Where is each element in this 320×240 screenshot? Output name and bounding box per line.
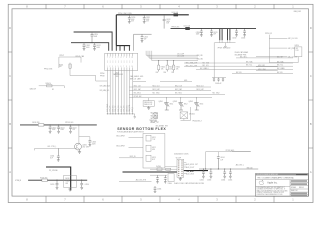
svg-text:LED_DRV: LED_DRV (82, 146, 89, 148)
capacitor C5 (143, 15, 150, 24)
capacitor C11 bulk pair B (228, 29, 230, 41)
junction dots bus PP3V3 (201, 28, 245, 29)
resistor R9 (156, 166, 162, 171)
svg-text:MIC_SEL0: MIC_SEL0 (153, 93, 160, 95)
connector J1 pin numbers (107, 57, 133, 68)
capacitor C30 (156, 175, 159, 183)
svg-text:10K: 10K (176, 68, 179, 70)
wire net row 4 PP1V8_MIC (129, 96, 212, 98)
IC U1 right pins (184, 163, 187, 174)
svg-text:C: C (9, 74, 11, 78)
wire mic row 1 (116, 136, 143, 138)
title block address text (257, 186, 288, 196)
svg-text:MIC_EN: MIC_EN (236, 72, 241, 74)
wire codec aux left (119, 179, 152, 182)
frame zone labels bottom (26, 198, 294, 202)
svg-text:100N: 100N (60, 129, 63, 131)
resistor R1 (59, 64, 71, 68)
svg-text:MIC_SEL0: MIC_SEL0 (134, 93, 141, 95)
wire net row SCL right (184, 65, 293, 68)
svg-text:MIC_INT_L: MIC_INT_L (240, 56, 248, 58)
title block legal row (256, 177, 309, 180)
svg-text:PP1V8_MIC: PP1V8_MIC (134, 96, 142, 98)
wire GND junction row below J1 (107, 113, 136, 118)
capacitor C24 (217, 157, 225, 169)
svg-text:D4530: D4530 (65, 178, 69, 180)
svg-text:WITHOUT PERMISSION. 1 INFINITE: WITHOUT PERMISSION. 1 INFINITE LOOP (257, 192, 285, 194)
net label rows conn-left (100, 85, 110, 93)
svg-text:MIC3: MIC3 (152, 157, 156, 159)
wire lower stub row 2 (256, 68, 278, 71)
svg-text:6.3V: 6.3V (131, 21, 134, 23)
wire net row row5 right (232, 72, 293, 74)
svg-text:100N: 100N (86, 47, 89, 49)
svg-text:C4533: C4533 (241, 38, 245, 40)
capacitor C12 (232, 29, 238, 40)
transistor Q3 mic switch 2 (173, 98, 188, 110)
svg-text:A: A (9, 170, 11, 174)
capacitor C10 bulk pair A (220, 29, 222, 41)
svg-text:1UF: 1UF (72, 129, 75, 131)
title block header bar (256, 174, 308, 177)
svg-text:C4511: C4511 (146, 17, 150, 19)
svg-text:CSI0_DP: CSI0_DP (110, 106, 112, 112)
ground below D1 (68, 188, 71, 191)
net labels below resistors (156, 72, 175, 74)
svg-text:10K: 10K (59, 66, 62, 68)
svg-text:MID: MID (152, 149, 155, 151)
ground Q1 emitter (78, 150, 81, 154)
svg-text:CSI_CLKP: CSI_CLKP (177, 54, 184, 56)
net label column right (151, 112, 159, 123)
svg-text:C4513: C4513 (144, 37, 148, 39)
svg-text:SHEET 44: SHEET 44 (291, 190, 298, 192)
wire rail PP1V8 top-left (71, 43, 109, 51)
svg-text:B: B (9, 122, 11, 126)
wire codec input row (150, 168, 177, 170)
svg-text:4.7K: 4.7K (296, 50, 299, 52)
svg-text:Q4501: Q4501 (159, 101, 164, 103)
svg-text:C4564: C4564 (221, 180, 225, 182)
capacitor C21 (50, 148, 60, 161)
microphone element M3 (146, 155, 156, 161)
svg-text:C4554: C4554 (50, 156, 54, 158)
svg-text:C4551: C4551 (60, 127, 64, 129)
net label left of J1 (100, 73, 105, 78)
note text right (235, 51, 248, 56)
resistor R6 in box (295, 45, 302, 62)
capacitor C19 (69, 125, 77, 133)
svg-text:SENSOR BOTTOM FLEX: SENSOR BOTTOM FLEX (117, 127, 166, 131)
capacitor C26 (207, 169, 212, 182)
svg-text:R4501: R4501 (59, 64, 63, 66)
wire base line (35, 146, 75, 148)
svg-text:C4532: C4532 (232, 38, 236, 40)
wire thick audio out (184, 170, 208, 172)
svg-text:MIC1_CLK: MIC1_CLK (134, 85, 141, 87)
wire J1 pin drops (108, 70, 133, 114)
svg-text:CSI_DP0: CSI_DP0 (197, 55, 203, 57)
svg-text:MIC1_CLK: MIC1_CLK (153, 85, 160, 87)
svg-text:10K: 10K (169, 68, 172, 70)
wire MIPI lane row 2 (148, 51, 198, 57)
svg-text:PP3V0: PP3V0 (100, 73, 105, 75)
svg-text:C4561: C4561 (220, 157, 224, 159)
svg-text:C4552: C4552 (72, 127, 76, 129)
svg-text:C4553: C4553 (92, 142, 96, 144)
net labels right of U1 (186, 163, 198, 169)
svg-text:10UF: 10UF (146, 19, 150, 21)
svg-text:052-01234 SENSOR BTM FLEX: 052-01234 SENSOR BTM FLEX (257, 174, 279, 176)
svg-text:CSI0_CN: CSI0_CN (118, 106, 120, 112)
svg-text:MIC_SCL_1V8: MIC_SCL_1V8 (186, 65, 197, 67)
wire net tree branch 3 (256, 56, 297, 58)
svg-text:CSI1_DN: CSI1_DN (124, 106, 126, 112)
svg-text:100N: 100N (196, 34, 199, 36)
capacitor C15 (217, 78, 219, 82)
svg-text:C4565: C4565 (228, 180, 232, 182)
svg-text:PP3V3_MIC: PP3V3_MIC (172, 27, 180, 29)
svg-text:R4520: R4520 (295, 45, 299, 47)
svg-text:THIS: THIS (257, 178, 260, 180)
svg-text:C4556: C4556 (85, 184, 89, 186)
svg-text:WLCSP: WLCSP (176, 157, 181, 159)
wire net tree vertical (268, 35, 270, 63)
border frame inner (12, 9, 309, 196)
title block right divider (289, 180, 291, 197)
capacitor C22 (50, 180, 58, 189)
microphone array box (143, 134, 165, 169)
svg-text:MK4502: MK4502 (189, 114, 195, 116)
wire mic row 2 (116, 146, 143, 148)
power symbol PP_BULK (218, 46, 231, 50)
border frame outer (8, 4, 313, 202)
svg-text:R4510: R4510 (161, 67, 165, 69)
wire thick audio bus (123, 171, 178, 173)
svg-text:MIC_SCL: MIC_SCL (246, 65, 252, 67)
connector J1 refdes label (113, 72, 123, 78)
svg-text:6.3V: 6.3V (146, 21, 149, 23)
capacitor C7 (141, 34, 149, 42)
svg-text:1UF: 1UF (213, 34, 216, 36)
svg-text:100N: 100N (92, 143, 95, 145)
svg-text:C4512: C4512 (166, 19, 170, 21)
svg-text:C4540-42: C4540-42 (215, 83, 222, 85)
capacitor C20 (89, 141, 97, 147)
ground below U1 (179, 177, 182, 180)
svg-text:MIC1: MIC1 (170, 104, 174, 106)
frame zone labels top (26, 5, 294, 9)
connector J1 middle pin marks (108, 61, 133, 63)
capacitor C23 (80, 180, 89, 189)
ferrite bead L2 (184, 25, 190, 30)
svg-text:FL4560: FL4560 (156, 166, 161, 168)
svg-text:C4531: C4531 (213, 32, 217, 34)
svg-text:GPIO_MIC: GPIO_MIC (258, 65, 265, 67)
resistor R4 vertical (158, 61, 166, 72)
junction dots MIPI rows (158, 59, 174, 62)
svg-text:B: B (310, 122, 312, 126)
svg-text:PP1V8: PP1V8 (100, 76, 105, 78)
capacitor C28 (228, 169, 232, 182)
microphone MK1 box (153, 113, 157, 118)
svg-text:GND: GND (184, 80, 187, 82)
wire mic row 3 (119, 156, 143, 158)
svg-text:R4530 1R0: R4530 1R0 (32, 122, 39, 124)
svg-text:CSI1_DP: CSI1_DP (121, 106, 123, 112)
resistor R8 series (40, 177, 47, 181)
svg-text:C4562: C4562 (200, 180, 204, 182)
capacitor C31 (164, 175, 167, 183)
capacitor C8 (196, 29, 203, 37)
svg-text:A: A (310, 170, 312, 174)
capacitor C27 (221, 169, 226, 182)
svg-text:R4531 0R5: R4531 0R5 (40, 177, 47, 179)
title block right cells (290, 180, 308, 196)
microphone element M1 (146, 135, 156, 141)
svg-text:CSI_DN0: CSI_DN0 (197, 58, 203, 60)
svg-text:MIC1: MIC1 (152, 137, 156, 139)
svg-text:NC: NC (52, 89, 54, 91)
wire bus PP3V3 top-right (171, 28, 257, 30)
net stub left end (34, 148, 36, 150)
frame zone ticks right (309, 52, 314, 148)
microphone MK2 box (180, 112, 195, 119)
frame zone ticks bottom (46, 196, 274, 202)
wire to note box (148, 98, 150, 101)
capacitor C4 (128, 15, 136, 24)
wire rail AVDD over codec (206, 152, 251, 169)
wire stub to title block (232, 152, 251, 167)
svg-text:MIC2: MIC2 (152, 147, 156, 149)
svg-text:C: C (310, 74, 312, 78)
svg-text:MIC_SEL2: MIC_SEL2 (213, 93, 220, 95)
crystal Y1 box (168, 174, 175, 185)
title block outline (256, 174, 309, 197)
connector J1 inner pin stubs (108, 53, 133, 70)
wire rail PP3V0 top-left (74, 32, 113, 51)
microphone element M2 (146, 145, 156, 151)
svg-text:C4521: C4521 (86, 45, 90, 47)
ferrite bead L1 (172, 11, 179, 16)
svg-text:Q4503: Q4503 (189, 101, 194, 103)
capacitor C13 (241, 29, 246, 40)
svg-text:TOP: TOP (152, 139, 155, 141)
resistor R7 series (32, 122, 44, 126)
svg-text:R4502 0: R4502 0 (46, 83, 52, 85)
svg-text:1UF: 1UF (220, 159, 223, 161)
capacitor C6 between rails (163, 15, 171, 29)
frame zone labels right (310, 26, 312, 174)
junction codec rail (203, 168, 231, 169)
wire net row SDA right (184, 60, 293, 64)
wire MIPI lane row 3 (150, 51, 198, 59)
svg-text:BOT: BOT (152, 159, 155, 161)
wire collector below bulk caps (215, 40, 236, 46)
svg-text:C4563: C4563 (207, 180, 211, 182)
svg-text:TP4500 MIC_T: TP4500 MIC_T (192, 121, 202, 123)
svg-text:SHIELD CLIP: SHIELD CLIP (144, 104, 152, 106)
svg-text:Y4560: Y4560 (168, 183, 172, 185)
wire MIPI lane row 4 (152, 51, 198, 61)
svg-text:PP3V3_S2: PP3V3_S2 (265, 33, 272, 35)
wire pin stubs to connector (116, 46, 129, 51)
svg-text:10K: 10K (161, 68, 164, 70)
resistor R10 (165, 168, 171, 174)
wire mic box out (165, 166, 177, 168)
LED driver D1 box (64, 175, 76, 187)
wire distribution below bus (116, 45, 130, 47)
svg-text:TP4501 MIC: TP4501 MIC (149, 120, 157, 122)
title block divider line (256, 185, 291, 187)
net name columns below J1 (106, 103, 134, 112)
wire codec out right (199, 168, 258, 170)
capacitor C18 (57, 125, 65, 133)
wire net row 1 (129, 85, 211, 87)
svg-text:C4520: C4520 (94, 34, 98, 36)
svg-text:STRB_IN: STRB_IN (15, 180, 21, 182)
capacitor C1 (91, 32, 99, 43)
capacitor C16 (215, 78, 224, 85)
junction dots bus PP_TOP (129, 14, 165, 15)
svg-text:C4510: C4510 (131, 17, 135, 19)
svg-text:1UF: 1UF (50, 157, 53, 159)
wire net row 2 (129, 88, 211, 91)
svg-text:BTB: BTB (116, 76, 119, 78)
svg-text:MIC2_INPUT: MIC2_INPUT (116, 146, 125, 148)
svg-text:I2S_BUS: I2S_BUS (187, 171, 195, 173)
wire codec gnd row (150, 174, 167, 176)
svg-text:R4511: R4511 (169, 67, 173, 69)
Apple logo (259, 180, 264, 185)
wire net tree branch 1 (269, 38, 297, 40)
wire bus PP_TOP vertical (115, 15, 117, 46)
wire net row row4 right (196, 67, 293, 70)
capacitor C3 (93, 43, 101, 51)
wire bus PP_TOP horizontal (116, 14, 189, 16)
transistor Q1 (75, 137, 89, 150)
svg-text:MIC_SCL: MIC_SCL (277, 65, 283, 67)
test point TP1 label (192, 121, 202, 123)
wire mic2 bottom (181, 107, 191, 120)
wire net row 3 (129, 93, 225, 95)
resistor R2 (46, 83, 53, 87)
svg-text:10UF: 10UF (52, 129, 56, 131)
capacitor C14 (213, 78, 215, 82)
wire net tree branch 2 (269, 48, 297, 50)
svg-text:MIC2: MIC2 (184, 104, 188, 106)
transistor Q2 mic switch 1 (159, 98, 174, 110)
svg-text:100N: 100N (166, 21, 169, 23)
wire zigzag mid-left (59, 57, 107, 81)
wire caps row below (212, 77, 226, 79)
svg-text:C4566: C4566 (157, 188, 161, 190)
svg-text:FM4500 GND: FM4500 GND (144, 102, 152, 104)
svg-text:LED_CTRL_L: LED_CTRL_L (47, 146, 56, 148)
IC U1 label (174, 153, 189, 160)
svg-text:D: D (9, 26, 11, 30)
svg-text:CSI0_CP: CSI0_CP (115, 106, 117, 112)
wire lower stub row 1 (256, 65, 278, 67)
net label lower-left (30, 88, 55, 91)
wire rail PP2V8 left (20, 124, 97, 126)
svg-text:10UF: 10UF (131, 19, 135, 21)
wire net tree branch 4 (269, 62, 296, 64)
transistor Q4 mic switch 3 (189, 98, 204, 110)
svg-text:CSI_CLKN: CSI_CLKN (177, 56, 184, 58)
ground below note box (147, 106, 150, 109)
wire MIPI lane row 1 (146, 51, 198, 55)
wire vertical feed to caps row (213, 43, 215, 78)
svg-text:C4530: C4530 (196, 32, 200, 34)
resistor R11 vertical (173, 61, 181, 72)
svg-text:MIC3_CLK: MIC3_CLK (197, 85, 204, 87)
svg-text:MIC2_CLK: MIC2_CLK (175, 85, 182, 87)
net label X-box (149, 120, 159, 124)
svg-text:GND_C: GND_C (132, 106, 134, 112)
svg-text:MIC_LDO_EN: MIC_LDO_EN (288, 38, 297, 40)
connector J1 body (105, 53, 138, 70)
wire rail bottom-left (28, 179, 87, 181)
junction dots rail PP2V8 (50, 124, 80, 125)
net labels MIPI rows (177, 54, 203, 61)
wire short gnd row (133, 80, 146, 82)
svg-text:100N: 100N (94, 36, 97, 38)
svg-text:REV 05: REV 05 (299, 187, 304, 189)
svg-text:Q4530: Q4530 (82, 145, 87, 147)
capacitor C9 (210, 29, 218, 37)
svg-text:C4550: C4550 (52, 127, 56, 129)
svg-text:DOCUMENT: DOCUMENT (262, 178, 270, 180)
wire net row INT right (236, 56, 293, 58)
capacitor C25 (200, 169, 205, 182)
svg-text:C4555: C4555 (50, 184, 54, 186)
svg-text:PP1V2_SNS: PP1V2_SNS (44, 68, 52, 70)
svg-text:MIC1_INPUT: MIC1_INPUT (116, 136, 125, 138)
svg-text:X5R: X5R (166, 23, 169, 25)
svg-text:LED: LED (65, 183, 68, 185)
svg-text:PP2V8_LED: PP2V8_LED (65, 122, 73, 124)
svg-text:MIC_SCL: MIC_SCL (203, 65, 209, 67)
note box right of J1 (143, 101, 154, 107)
wire thick L bus strobe (46, 167, 71, 191)
svg-text:100N: 100N (96, 47, 99, 49)
svg-text:CSI0_DN: CSI0_DN (112, 106, 114, 112)
wire to transistor branch (79, 125, 90, 141)
svg-text:D: D (310, 26, 312, 30)
svg-text:MIC_PWR_EN: MIC_PWR_EN (288, 48, 298, 50)
svg-text:R4512: R4512 (176, 67, 180, 69)
svg-text:MIC_EN: MIC_EN (277, 72, 282, 74)
capacitor C17 (49, 125, 57, 133)
resistor R5 vertical (166, 61, 174, 72)
wire stub lower-left (39, 86, 65, 88)
svg-text:Apple Inc.: Apple Inc. (267, 182, 278, 185)
svg-text:C4522: C4522 (96, 45, 100, 47)
capacitor C29 (154, 186, 162, 192)
junction dots rail bottom-left (56, 180, 82, 181)
capacitor C2 (83, 43, 91, 51)
svg-text:Q4502: Q4502 (173, 101, 178, 103)
frame zone labels left (9, 26, 11, 174)
frame zone ticks left (8, 52, 12, 148)
wire gray stub row (160, 80, 192, 82)
svg-text:MIC_SDA_1V8: MIC_SDA_1V8 (186, 61, 198, 64)
wire corner to connector pin (134, 34, 152, 51)
frame zone ticks top (46, 4, 274, 9)
svg-text:MIC3: MIC3 (200, 104, 204, 106)
IC U1 body (177, 159, 184, 177)
